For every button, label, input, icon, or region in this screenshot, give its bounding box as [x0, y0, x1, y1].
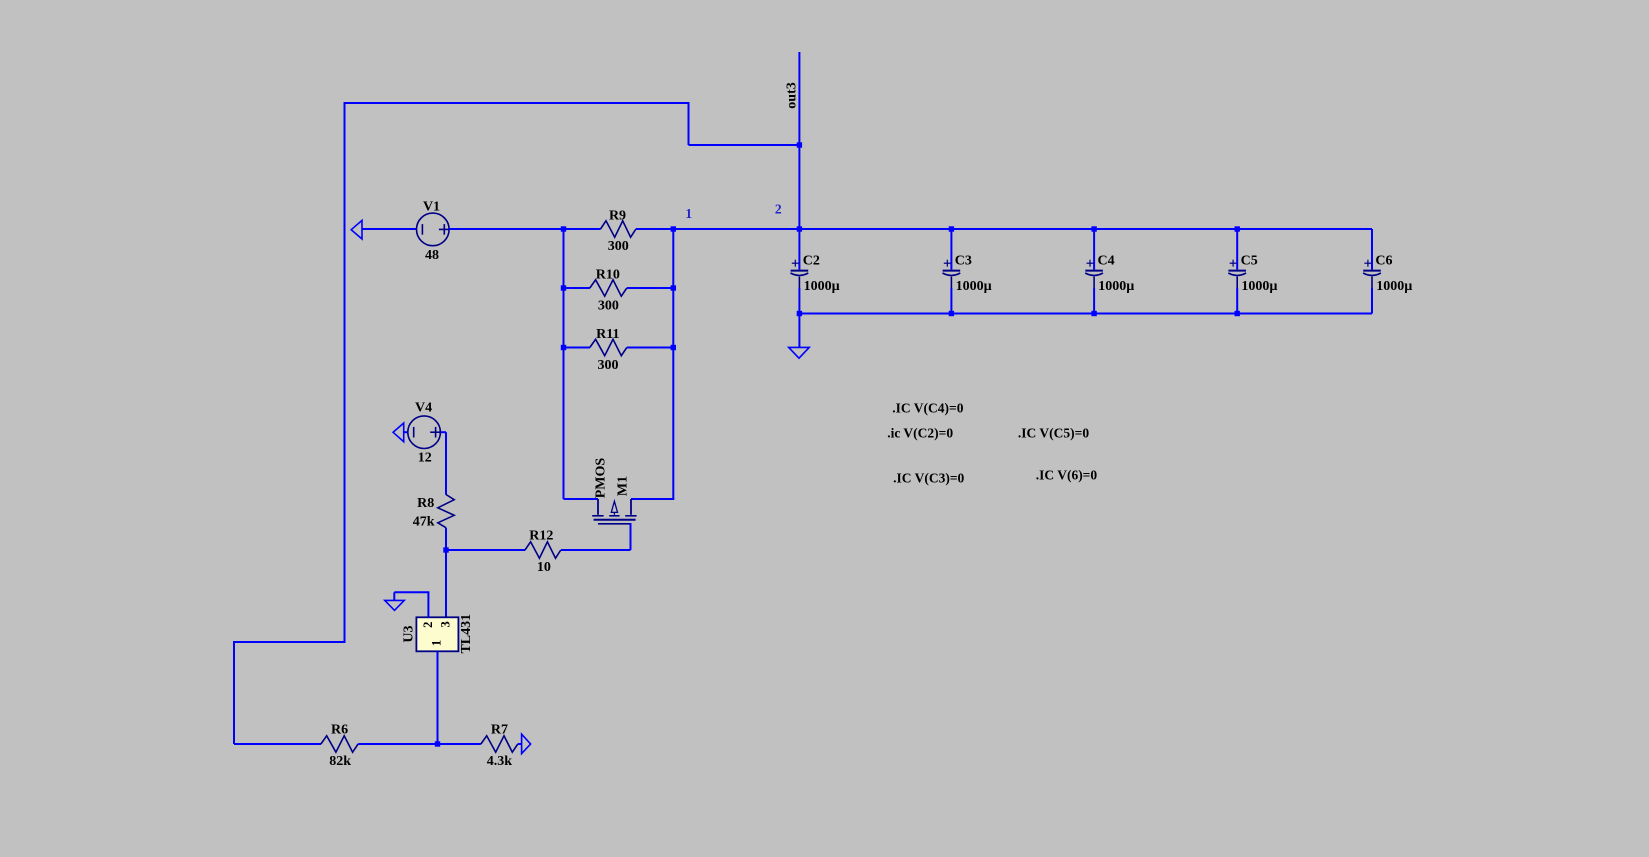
- junction C4 top/bottom: [1091, 226, 1096, 316]
- svg-text:47k: 47k: [413, 515, 435, 530]
- svg-text:R11: R11: [596, 327, 619, 342]
- wire U3 pin1 down: [437, 651, 439, 744]
- wire right bus of resistor bank: [631, 229, 674, 499]
- wire R8 to U3 pin3: [445, 528, 447, 618]
- wire bottom cap bus: [799, 313, 1372, 315]
- capacitor C3: [943, 229, 961, 314]
- wire V4 plus to R8: [441, 432, 446, 495]
- pin 3: [439, 621, 453, 627]
- resistor R11: [564, 339, 674, 355]
- wire V1 minus lead to flag: [362, 228, 417, 230]
- op-amp U3 TL431: [416, 617, 458, 651]
- svg-text:R7: R7: [491, 723, 508, 738]
- svg-text:.IC V(C3)=0: .IC V(C3)=0: [893, 471, 964, 486]
- svg-text:3: 3: [439, 621, 453, 627]
- wire left bus of resistor bank: [564, 229, 599, 499]
- svg-text:R12: R12: [529, 528, 553, 543]
- directive .ic V(C2)=0: [887, 426, 953, 441]
- wire left bus vertical: [234, 102, 346, 744]
- svg-text:R10: R10: [596, 267, 620, 282]
- port flag left at V4: [393, 423, 404, 442]
- svg-text:.ic V(C2)=0: .ic V(C2)=0: [887, 426, 953, 441]
- resistor R7: [481, 736, 518, 752]
- svg-text:2: 2: [421, 622, 435, 628]
- capacitor C5: [1228, 229, 1246, 314]
- svg-text:C6: C6: [1375, 254, 1392, 269]
- wire M1 gate to R12: [561, 523, 631, 550]
- svg-text:300: 300: [598, 299, 619, 314]
- junction R8/R12: [443, 547, 448, 552]
- svg-text:82k: 82k: [329, 754, 351, 769]
- wire top feedback: left bus top run: [345, 102, 800, 145]
- node 1: [685, 206, 692, 221]
- svg-text:48: 48: [425, 248, 439, 263]
- transistor M1 PMOS: [592, 499, 636, 524]
- svg-text:1000µ: 1000µ: [956, 279, 992, 294]
- port flag left at V1: [351, 220, 362, 239]
- svg-text:1: 1: [430, 640, 444, 646]
- directive .IC V(6)=0: [1036, 468, 1098, 483]
- resistor R12: [446, 542, 561, 558]
- svg-text:R6: R6: [331, 723, 348, 738]
- pin 2: [421, 622, 435, 628]
- svg-text:1000µ: 1000µ: [1098, 279, 1134, 294]
- node 2: [775, 201, 782, 216]
- wire bottom left run: [234, 743, 321, 745]
- junction C2 top/bottom: [797, 226, 802, 316]
- svg-text:C5: C5: [1241, 254, 1258, 269]
- svg-text:TL431: TL431: [459, 614, 474, 654]
- wire out3 net vertical: [798, 52, 800, 229]
- directive .IC V(C4)=0: [892, 400, 963, 415]
- svg-text:10: 10: [537, 560, 551, 575]
- svg-text:R9: R9: [609, 208, 626, 223]
- svg-text:M1: M1: [616, 476, 631, 496]
- wire V4 minus lead: [404, 431, 408, 433]
- junction left bus / main rail: [561, 226, 566, 231]
- svg-text:PMOS: PMOS: [594, 458, 609, 499]
- directive .IC V(C3)=0: [893, 471, 964, 486]
- wire R6 to R7: [358, 743, 481, 745]
- svg-text:1: 1: [685, 206, 692, 221]
- resistor R10: [564, 280, 674, 296]
- svg-text:300: 300: [598, 358, 619, 373]
- directive .IC V(C5)=0: [1018, 426, 1089, 441]
- ground: [789, 347, 810, 358]
- port flag right at R7: [522, 734, 531, 753]
- node out3 label: [785, 82, 800, 108]
- svg-text:12: 12: [418, 451, 432, 466]
- svg-text:V1: V1: [423, 200, 440, 215]
- svg-text:out3: out3: [785, 82, 800, 108]
- svg-text:C3: C3: [955, 254, 972, 269]
- wire main top rail V1 to R9: [449, 228, 601, 230]
- svg-text:C4: C4: [1098, 254, 1115, 269]
- resistor R6: [321, 736, 358, 752]
- wire ground stem below C2: [798, 314, 800, 348]
- ground flag at U3 pin2: [385, 600, 404, 610]
- svg-text:1000µ: 1000µ: [804, 279, 840, 294]
- capacitor C6: [1363, 229, 1381, 314]
- wire main rail R9 to C6: [636, 228, 1372, 230]
- svg-text:300: 300: [608, 239, 629, 254]
- svg-text:2: 2: [775, 201, 782, 216]
- voltage source V4: [408, 416, 441, 449]
- svg-text:.IC V(C5)=0: .IC V(C5)=0: [1018, 426, 1089, 441]
- pin 1: [430, 640, 444, 646]
- voltage source V1: [417, 213, 450, 246]
- resistor R9: [601, 221, 636, 237]
- capacitor C4: [1085, 229, 1103, 314]
- junction out3/top-run: [797, 142, 802, 147]
- svg-text:U3: U3: [402, 625, 417, 642]
- junction C5 top/bottom: [1235, 226, 1240, 316]
- junction right bus / main rail: [671, 226, 676, 231]
- junction U3 pin1 / bottom rail: [435, 741, 440, 746]
- svg-text:.IC V(C4)=0: .IC V(C4)=0: [892, 400, 963, 415]
- resistor R8: [438, 495, 454, 528]
- svg-text:.IC V(6)=0: .IC V(6)=0: [1036, 468, 1098, 483]
- junction C3 top/bottom: [949, 226, 954, 316]
- svg-text:1000µ: 1000µ: [1241, 279, 1277, 294]
- svg-text:R8: R8: [417, 496, 434, 511]
- svg-text:C2: C2: [803, 254, 820, 269]
- capacitor C2: [791, 229, 809, 314]
- wire U3 pin2 hook to ground flag: [394, 592, 429, 617]
- svg-text:1000µ: 1000µ: [1376, 279, 1412, 294]
- svg-text:V4: V4: [415, 400, 432, 415]
- wire R7 to flag: [518, 743, 522, 745]
- svg-text:4.3k: 4.3k: [487, 754, 513, 769]
